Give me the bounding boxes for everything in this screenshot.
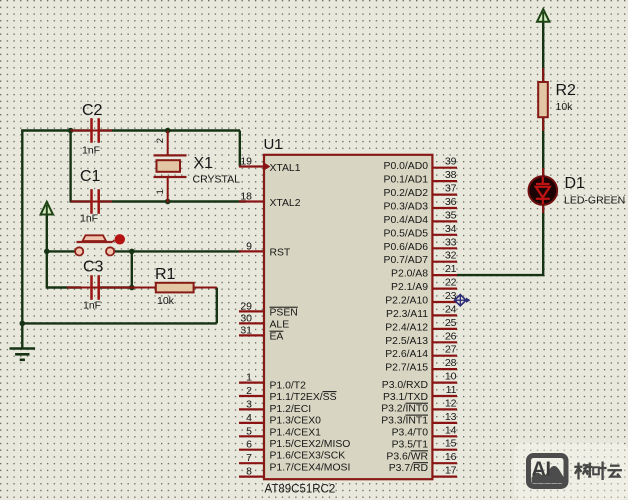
- svg-text:1: 1: [155, 189, 166, 194]
- svg-text:31: 31: [240, 324, 252, 336]
- svg-text:18: 18: [240, 191, 252, 203]
- svg-text:26: 26: [445, 330, 457, 342]
- svg-text:38: 38: [445, 169, 457, 181]
- svg-text:P1.6/CEX3/SCK: P1.6/CEX3/SCK: [270, 451, 346, 462]
- svg-text:9: 9: [246, 240, 252, 252]
- svg-text:12: 12: [445, 397, 457, 409]
- svg-text:AT89C51RC2: AT89C51RC2: [265, 484, 336, 496]
- svg-text:17: 17: [445, 465, 457, 477]
- svg-text:39: 39: [445, 156, 457, 168]
- svg-text:P0.5/AD5: P0.5/AD5: [384, 228, 429, 239]
- svg-text:10k: 10k: [556, 101, 574, 113]
- svg-text:AI: AI: [532, 459, 551, 481]
- svg-text:C1: C1: [80, 168, 101, 185]
- svg-text:XTAL1: XTAL1: [270, 163, 301, 174]
- svg-text:EA: EA: [270, 332, 284, 343]
- svg-text:15: 15: [445, 438, 457, 450]
- svg-text:P2.6/A14: P2.6/A14: [385, 349, 428, 360]
- svg-text:19: 19: [240, 156, 252, 168]
- svg-text:30: 30: [240, 312, 252, 324]
- svg-text:P2.3/A11: P2.3/A11: [386, 309, 428, 320]
- svg-text:1nF: 1nF: [83, 300, 101, 312]
- svg-text:C3: C3: [83, 259, 104, 276]
- svg-text:1: 1: [246, 372, 252, 384]
- svg-text:34: 34: [445, 223, 457, 235]
- svg-text:P2.4/A12: P2.4/A12: [385, 322, 428, 333]
- svg-text:4: 4: [246, 412, 252, 424]
- svg-text:X1: X1: [194, 155, 214, 172]
- svg-text:14: 14: [445, 424, 457, 436]
- svg-text:P0.6/AD6: P0.6/AD6: [384, 242, 429, 253]
- svg-text:P2.7/A15: P2.7/A15: [385, 363, 428, 374]
- svg-text:R1: R1: [155, 266, 176, 283]
- svg-text:P2.0/A8: P2.0/A8: [391, 269, 428, 280]
- svg-text:RST: RST: [270, 248, 291, 259]
- svg-text:P0.3/AD3: P0.3/AD3: [384, 202, 429, 213]
- svg-text:P1.7/CEX4/MOSI: P1.7/CEX4/MOSI: [270, 462, 351, 473]
- svg-text:37: 37: [445, 183, 457, 195]
- svg-text:5: 5: [246, 425, 252, 437]
- svg-text:P2.2/A10: P2.2/A10: [385, 296, 428, 307]
- svg-text:P1.3/CEX0: P1.3/CEX0: [270, 416, 322, 427]
- svg-text:U1: U1: [264, 136, 283, 153]
- svg-text:P2.5/A13: P2.5/A13: [385, 336, 428, 347]
- svg-text:P3.2/INT0: P3.2/INT0: [381, 404, 428, 415]
- svg-text:16: 16: [445, 451, 457, 463]
- svg-text:P1.4/CEX1: P1.4/CEX1: [270, 427, 322, 438]
- svg-text:6: 6: [246, 439, 252, 451]
- svg-text:PSEN: PSEN: [270, 308, 298, 319]
- svg-text:25: 25: [445, 317, 457, 329]
- svg-text:P1.2/ECI: P1.2/ECI: [270, 404, 312, 415]
- svg-text:ALE: ALE: [270, 320, 290, 331]
- svg-text:P0.4/AD4: P0.4/AD4: [384, 215, 429, 226]
- svg-text:P3.4/T0: P3.4/T0: [392, 428, 429, 439]
- svg-text:P3.5/T1: P3.5/T1: [392, 439, 429, 450]
- svg-text:35: 35: [445, 209, 457, 221]
- svg-text:C2: C2: [82, 102, 103, 119]
- svg-text:R2: R2: [556, 82, 577, 99]
- svg-text:P1.1/T2EX/SS: P1.1/T2EX/SS: [270, 392, 337, 403]
- svg-text:P3.1/TXD: P3.1/TXD: [383, 392, 428, 403]
- svg-text:D1: D1: [565, 175, 586, 192]
- svg-text:CRYSTAL: CRYSTAL: [193, 174, 241, 186]
- svg-text:24: 24: [445, 303, 457, 315]
- svg-text:1nF: 1nF: [82, 145, 100, 157]
- svg-text:10: 10: [445, 371, 457, 383]
- svg-text:2: 2: [155, 138, 166, 143]
- svg-text:10k: 10k: [157, 295, 175, 307]
- svg-text:27: 27: [445, 344, 457, 356]
- svg-text:32: 32: [445, 250, 457, 262]
- svg-text:1nF: 1nF: [80, 213, 98, 225]
- svg-text:P0.2/AD2: P0.2/AD2: [384, 188, 429, 199]
- svg-text:P3.7/RD: P3.7/RD: [389, 463, 428, 474]
- svg-text:29: 29: [240, 300, 252, 312]
- svg-text:21: 21: [445, 263, 457, 275]
- svg-text:P3.3/INT1: P3.3/INT1: [381, 416, 428, 427]
- svg-text:P3.0/RXD: P3.0/RXD: [382, 380, 428, 391]
- svg-text:XTAL2: XTAL2: [270, 198, 301, 209]
- svg-text:P0.1/AD1: P0.1/AD1: [384, 175, 429, 186]
- svg-text:P2.1/A9: P2.1/A9: [391, 282, 428, 293]
- svg-text:P0.7/AD7: P0.7/AD7: [384, 255, 429, 266]
- svg-text:28: 28: [445, 357, 457, 369]
- svg-text:11: 11: [446, 384, 457, 396]
- svg-text:P3.6/WR: P3.6/WR: [386, 451, 428, 462]
- svg-text:3: 3: [246, 398, 252, 410]
- svg-text:2: 2: [246, 385, 252, 397]
- svg-text:22: 22: [445, 277, 457, 289]
- svg-text:13: 13: [445, 411, 457, 423]
- svg-text:7: 7: [246, 452, 252, 464]
- svg-text:33: 33: [445, 236, 457, 248]
- svg-text:P1.0/T2: P1.0/T2: [270, 380, 307, 391]
- svg-text:P1.5/CEX2/MISO: P1.5/CEX2/MISO: [270, 439, 351, 450]
- svg-text:8: 8: [246, 466, 252, 478]
- svg-text:36: 36: [445, 196, 457, 208]
- svg-text:P0.0/AD0: P0.0/AD0: [384, 161, 429, 172]
- svg-text:LED-GREEN: LED-GREEN: [564, 195, 625, 207]
